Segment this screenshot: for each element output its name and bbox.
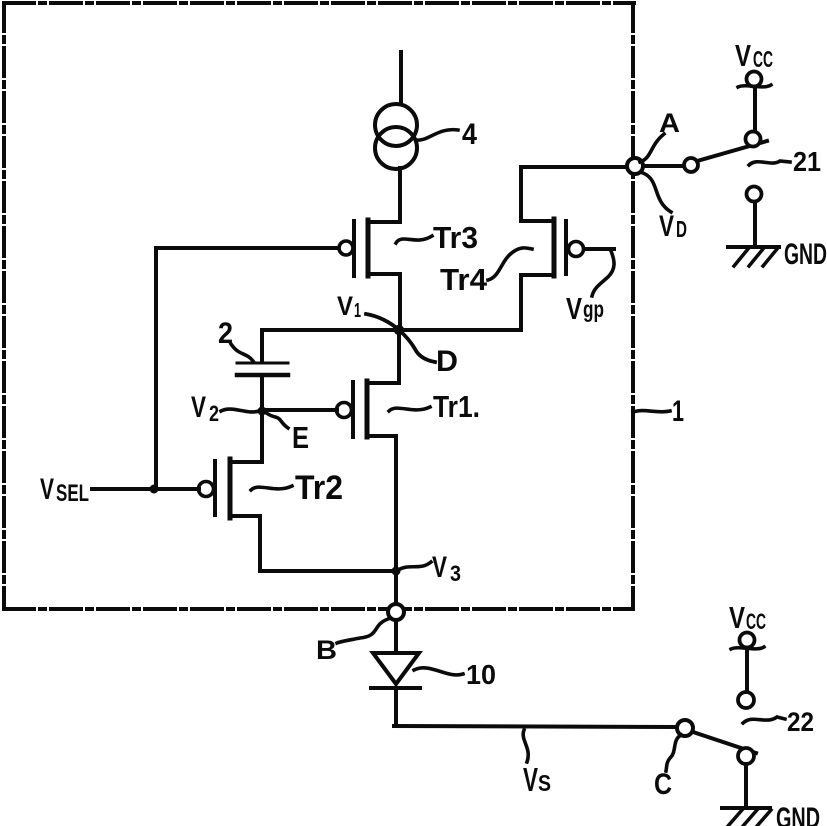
wire top stub above current source [399, 52, 403, 104]
svg-text:E: E [292, 420, 309, 455]
svg-text:Tr3: Tr3 [433, 220, 478, 255]
svg-text:Tr4: Tr4 [440, 262, 488, 297]
current source 4 lower circle [375, 127, 417, 169]
leader squiggle Tr1 [389, 407, 430, 411]
leader squiggle V3 [398, 562, 431, 570]
svg-text:1: 1 [354, 300, 361, 322]
transistor Tr3 source stub [368, 272, 400, 276]
junction dot on VSEL line [150, 485, 159, 494]
junction dot V3 [392, 567, 401, 576]
transistor Tr3 channel [366, 220, 371, 276]
wire diode to bottom rail [394, 688, 398, 726]
switch 22 blade [693, 732, 756, 753]
svg-text:V: V [729, 600, 745, 635]
wire vcc contact up (22) [745, 648, 749, 692]
transistor Tr3 drain stub [368, 220, 400, 224]
transistor Tr4 gate bar [564, 221, 568, 274]
Vcc terminal circle (21) [747, 72, 762, 87]
diode 10 triangle [373, 653, 419, 684]
svg-text:V: V [523, 761, 538, 798]
svg-text:V: V [735, 38, 751, 73]
wire node V1 horizontal [262, 328, 521, 332]
diode 10 cathode bar [371, 686, 420, 690]
transistor Tr2 drain stub [230, 460, 262, 464]
transistor Tr2 gate bubble [199, 482, 214, 497]
leader squiggle VD [643, 173, 671, 212]
svg-text:gp: gp [583, 296, 604, 322]
leader squiggle 2 [231, 344, 253, 361]
transistor Tr2 source stub [230, 514, 260, 518]
svg-text:D: D [436, 345, 458, 378]
switch 21 gnd contact circle [747, 187, 762, 202]
svg-text:Tr1.: Tr1. [433, 389, 480, 424]
wire Tr3 gate to left rail [156, 246, 339, 250]
wire V3 down to node B [394, 571, 398, 604]
leader squiggle Vs [523, 730, 528, 762]
svg-text:V: V [659, 210, 674, 243]
wire node A to switch 21 contact [643, 164, 683, 168]
block 1 dash-dot border right [631, 3, 635, 609]
current source 4 upper circle [375, 104, 417, 146]
leader squiggle V1 to D [366, 314, 435, 362]
node C circle [677, 720, 693, 736]
wire capacitor top stub [260, 330, 264, 361]
transistor Tr1 channel [365, 381, 370, 437]
svg-text:21: 21 [793, 146, 821, 177]
leader squiggle Tr3 [396, 236, 432, 243]
transistor Tr2 channel [228, 459, 233, 518]
wire bottom rail to node C [394, 726, 677, 727]
svg-text:22: 22 [787, 707, 814, 737]
Vcc terminal circle (22) [740, 633, 755, 648]
transistor Tr2 gate bar [213, 461, 217, 515]
svg-text:CC: CC [753, 46, 773, 72]
leader squiggle 22 [743, 717, 785, 723]
leader squiggle Vgp [592, 251, 614, 296]
leader line 1 [633, 411, 670, 412]
svg-text:CC: CC [746, 609, 766, 634]
leader squiggle 21 [749, 161, 790, 165]
transistor Tr3 gate bubble [339, 241, 353, 255]
svg-text:4: 4 [462, 118, 477, 151]
transistor Tr3 gate bar [352, 221, 356, 276]
leader squiggle B [337, 619, 388, 643]
svg-text:V: V [191, 391, 206, 424]
leader squiggle Tr4 [488, 248, 532, 280]
svg-text:3: 3 [450, 561, 461, 586]
svg-text:1: 1 [672, 395, 684, 428]
block 1 dash-dot border bottom [4, 607, 632, 611]
transistor Tr1 gate bubble [337, 403, 352, 418]
wire Tr1 drain up to V1 [397, 330, 401, 383]
wire to node A [521, 165, 633, 169]
wire current source to Tr3 drain [398, 168, 402, 222]
svg-text:GND: GND [784, 238, 827, 271]
svg-text:S: S [538, 770, 551, 796]
svg-text:GND: GND [776, 802, 820, 826]
leader squiggle A [640, 134, 664, 162]
block 1 dash-dot border top [4, 1, 634, 5]
Vcc terminal tick (21) [738, 85, 771, 87]
wire gnd contact down (21) [753, 202, 757, 246]
svg-text:V: V [432, 551, 447, 584]
capacitor 2 bottom plate [237, 373, 288, 378]
leader squiggle 10 [414, 668, 463, 675]
svg-text:2: 2 [218, 317, 233, 350]
svg-text:V: V [40, 473, 54, 506]
wire Tr4 source down to node V1 line [519, 275, 523, 330]
node A circle [627, 158, 643, 174]
switch 22 gnd contact circle [738, 748, 754, 764]
Vcc terminal tick (22) [731, 647, 764, 649]
svg-text:V: V [337, 291, 353, 321]
wire Tr1 source down to V3 [394, 436, 398, 571]
node B circle [388, 604, 404, 620]
svg-text:V: V [566, 291, 582, 326]
leader to label 4 [416, 130, 458, 141]
wire node V3 horizontal [260, 569, 396, 573]
block 1 dash-dot border left [2, 3, 6, 609]
switch 22 vcc contact circle [738, 692, 754, 708]
transistor Tr1 drain stub [367, 381, 399, 385]
leader squiggle C [666, 735, 681, 771]
svg-text:C: C [654, 768, 672, 801]
transistor Tr4 drain stub [521, 219, 554, 223]
switch 21 pivot circle [746, 132, 761, 147]
wire VSEL to Tr2 gate [92, 487, 199, 491]
wire Tr4 drain up [519, 167, 523, 221]
ground symbol (21) [728, 247, 779, 266]
leader squiggle Tr2 [251, 486, 292, 490]
ground symbol (22) [722, 808, 771, 826]
transistor Tr4 gate bubble [569, 242, 584, 257]
junction dot V2/E [258, 407, 267, 416]
transistor Tr4 gate wire [584, 247, 614, 251]
wire switch 21 pivot to Vcc terminal [753, 87, 757, 131]
switch 21 blade [697, 141, 767, 161]
switch 21 left contact circle [684, 158, 698, 172]
wire capacitor bottom to node E and Tr2 drain [260, 377, 264, 462]
transistor Tr1 gate bar [351, 382, 355, 437]
wire gnd contact down (22) [744, 764, 748, 808]
wire V2 label to dot [221, 409, 259, 412]
transistor Tr1 source stub [367, 434, 396, 438]
svg-text:D: D [676, 216, 687, 242]
transistor Tr4 channel [552, 219, 557, 276]
svg-text:2: 2 [209, 401, 219, 426]
junction dot V1 [394, 325, 404, 335]
wire node B to diode [394, 620, 398, 653]
svg-text:A: A [659, 108, 680, 138]
leader squiggle E [265, 412, 288, 428]
wire node E to Tr1 gate [264, 408, 337, 412]
wire Tr3 source down to node V1 [398, 274, 402, 330]
transistor Tr4 source stub [521, 273, 554, 277]
wire left rail down to VSEL line [154, 248, 158, 489]
capacitor 2 top plate [237, 362, 288, 365]
svg-text:B: B [316, 635, 337, 665]
svg-text:Tr2: Tr2 [295, 469, 343, 507]
svg-text:SEL: SEL [56, 480, 89, 507]
wire Tr2 source down [258, 516, 262, 571]
svg-text:10: 10 [466, 659, 496, 690]
